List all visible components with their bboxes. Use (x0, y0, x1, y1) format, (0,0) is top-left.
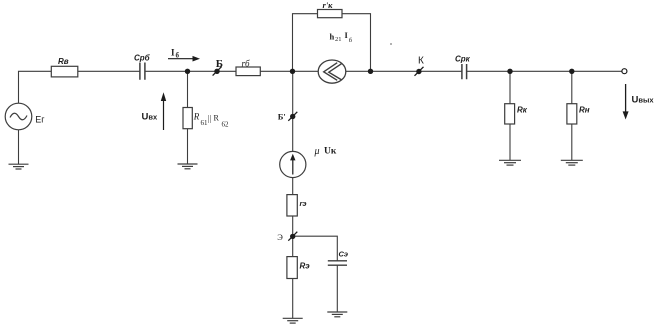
node 5 junction dot (569, 69, 574, 74)
ground below Ег (9, 164, 29, 169)
svg-text:Срб: Срб (134, 54, 151, 63)
resistor R61||R62 (183, 108, 192, 129)
resistor rб (236, 67, 260, 76)
svg-text:r'к: r'к (323, 0, 334, 10)
terminal К (dot + slash) (415, 67, 424, 76)
arrow Uвх (161, 92, 166, 130)
svg-text:62: 62 (222, 120, 230, 128)
ground below Сэ (327, 312, 347, 317)
node Б1 junction dot (290, 69, 295, 74)
wire Rв to Срб (78, 70, 140, 72)
svg-text:Б: Б (216, 58, 223, 70)
AC source Ег (5, 103, 32, 130)
capacitor Сэ (328, 261, 347, 265)
wire Er bottom to ground (18, 130, 20, 164)
wire Сэ to ground (336, 265, 338, 312)
arrow Uвых (623, 84, 629, 120)
svg-text:Rэ: Rэ (300, 262, 311, 271)
resistor Rв (51, 66, 78, 77)
svg-text:21: 21 (335, 36, 342, 43)
svg-text:Срк: Срк (455, 55, 471, 64)
ground below R61||R62 (178, 164, 198, 169)
svg-text:К: К (418, 56, 424, 67)
label h21 Iб (330, 30, 353, 44)
svg-text:h: h (330, 31, 335, 41)
wire Срб to node 1 (145, 70, 187, 72)
voltage source μUк (circle with up arrow) (280, 151, 306, 177)
wire Rн to ground (571, 124, 573, 160)
resistor Rк (505, 104, 515, 124)
svg-text:Uвх: Uвх (142, 112, 158, 123)
svg-text:rб: rб (242, 59, 251, 69)
wire node 1 to rб (188, 70, 237, 72)
current arrow Iб (168, 56, 200, 62)
terminal Б (dot + slash) (213, 67, 222, 76)
svg-text:Rк: Rк (517, 106, 528, 115)
output terminal (open circle) (622, 69, 627, 74)
node 4 junction dot (507, 69, 512, 74)
node 1 junction dot (185, 69, 190, 74)
svg-text:б: б (176, 52, 180, 60)
svg-text:Uк: Uк (324, 146, 337, 156)
label μ Uк (314, 146, 337, 157)
label R61||R62 (193, 112, 229, 129)
svg-text:Rв: Rв (58, 57, 69, 66)
resistor r'к (318, 10, 343, 18)
wire node 5 down to Rн (571, 71, 573, 103)
resistor Rэ (287, 257, 297, 279)
capacitor Срб (140, 63, 145, 80)
wire node Э to Сэ branch (293, 236, 338, 260)
wire Uк source to rэ (292, 178, 294, 195)
resistor rэ (287, 195, 297, 216)
svg-text:R: R (214, 114, 220, 123)
svg-text:||: || (208, 114, 211, 123)
wire rэ to node Э to Rэ (292, 216, 294, 257)
wire Er top to main rail (19, 71, 52, 103)
svg-text:Ег: Ег (35, 114, 45, 124)
resistor Rн (567, 104, 577, 124)
capacitor Срк (462, 64, 467, 79)
wire node Б1 down through Б' to Uк source (292, 71, 294, 151)
wire R61||R62 to ground (187, 129, 189, 164)
terminal Б' (dot + slash) (288, 112, 297, 121)
svg-text:R: R (193, 112, 200, 122)
wire node 4 down to Rк (509, 71, 511, 103)
svg-text:I: I (171, 48, 175, 58)
svg-text:61: 61 (201, 119, 209, 127)
wire current source to Срк (node K1) (346, 70, 462, 72)
wire Rк to ground (509, 124, 511, 160)
wire r'к feedback loop left+top+right (293, 14, 371, 72)
node K1 junction dot (368, 69, 373, 74)
artifact dot (390, 43, 392, 45)
svg-text:rэ: rэ (300, 199, 307, 208)
terminal Э (dot + slash) (288, 232, 297, 241)
wire Rэ to ground (292, 279, 294, 319)
ground below Rк (499, 160, 521, 165)
svg-text:Rн: Rн (579, 106, 590, 115)
ground below Rн (561, 160, 583, 165)
svg-text:μ: μ (314, 146, 320, 157)
wire Срк to output terminal (467, 70, 622, 72)
svg-text:Uвых: Uвых (632, 95, 655, 106)
svg-text:Сэ: Сэ (339, 250, 349, 259)
svg-text:Э: Э (277, 232, 283, 242)
wire rб to current source (node Б1) (260, 70, 318, 72)
wire node 1 down to R61||R62 (187, 71, 189, 107)
ground below Rэ (283, 318, 303, 323)
current source h21Iб (ellipse with chevrons) (318, 60, 346, 83)
svg-text:Б': Б' (278, 111, 286, 121)
